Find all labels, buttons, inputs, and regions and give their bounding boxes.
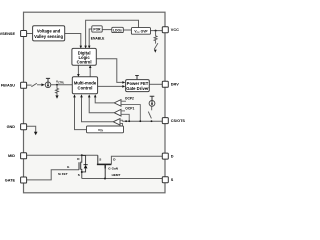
- svg-text:VCC: VCC: [171, 28, 179, 32]
- transistor Si FET: [81, 155, 82, 162]
- wire multi-mode to gate driver: [98, 85, 124, 87]
- VTH reference box: [87, 126, 124, 133]
- arrow into multi-mode top: [77, 74, 80, 77]
- wire POR to LDOs: [102, 29, 112, 31]
- wire VSENSE to Voltage and Valley sensing: [27, 33, 33, 35]
- pin VSENSE: [21, 31, 27, 37]
- current source circle on FB node: [45, 82, 51, 88]
- multi-mode bottom bus line 4 from OCP2: [95, 95, 114, 103]
- arrow into gate driver upper: [122, 81, 125, 84]
- box Voltage and Valley sensing: [33, 26, 65, 41]
- pin GATE: [21, 177, 27, 183]
- svg-text:OCP2: OCP2: [125, 97, 134, 101]
- ground arrow below VCTRL resistor: [55, 95, 58, 98]
- wire LDOs to Vcc OVP: [123, 29, 131, 31]
- supply tick above CS current source: [150, 96, 155, 100]
- svg-text:GND: GND: [7, 125, 16, 129]
- pin CS/OTS: [162, 118, 168, 124]
- wire POR to digital logic (ENABLE): [89, 29, 92, 47]
- GND pin wire with ground arrow: [27, 126, 36, 132]
- body diode of Si FET: [82, 156, 86, 165]
- svg-text:D: D: [171, 155, 174, 159]
- box Vcc OVP: [131, 28, 150, 35]
- pin S: [162, 177, 168, 183]
- wire Vcc OVP fault to digital logic: [86, 20, 139, 47]
- svg-text:LDOs: LDOs: [113, 28, 122, 32]
- pin D: [162, 153, 168, 159]
- FB/ASU pin wire: [27, 84, 32, 86]
- pin MID: [21, 153, 27, 159]
- svg-text:OCP1: OCP1: [125, 106, 134, 110]
- supply tick above FB current source: [46, 78, 50, 82]
- svg-text:S: S: [99, 157, 101, 161]
- node cascode gate junction: [104, 178, 106, 180]
- current source circle CS: [149, 101, 155, 107]
- switch blade on VCC bleed branch: [154, 43, 158, 49]
- wire VTH to ZCD lower input: [120, 123, 123, 126]
- svg-text:Control: Control: [78, 86, 93, 91]
- wire gate driver to DRV pin: [149, 83, 162, 85]
- arrow into digital logic bottom: [89, 65, 92, 68]
- svg-text:GATE: GATE: [5, 178, 16, 182]
- arrow into digital logic top 3: [88, 46, 91, 49]
- svg-text:ENABLE: ENABLE: [91, 37, 105, 41]
- multi-mode bottom bus line 2 from ZCD: [82, 95, 113, 121]
- svg-text:DRV: DRV: [171, 83, 179, 87]
- svg-text:S: S: [171, 178, 174, 182]
- resistor on VCC bleed branch: [154, 31, 157, 44]
- svg-text:Control: Control: [77, 59, 92, 64]
- arrow right on FB wire: [41, 83, 44, 86]
- box Digital Logic Control: [72, 48, 96, 65]
- arrow into gate driver lower: [122, 85, 125, 88]
- box Multi-mode Control: [72, 77, 97, 94]
- multi-mode bottom bus line 3 from OCP1: [89, 95, 114, 112]
- box POR: [92, 26, 102, 32]
- svg-text:VCC OVP: VCC OVP: [134, 29, 148, 34]
- svg-text:MID: MID: [8, 154, 15, 158]
- arrow into digital logic top 2: [84, 46, 87, 49]
- arrow into digital logic top 1: [80, 46, 83, 49]
- wire VCTRL to multi-mode: [51, 84, 73, 86]
- IC chip outline: [24, 12, 166, 193]
- node MID / Si drain junction: [81, 154, 83, 156]
- multi-mode bottom bus line 1 to VTH: [75, 95, 87, 129]
- svg-text:Gate Driver: Gate Driver: [126, 86, 149, 91]
- source rail wire to S pin: [82, 178, 163, 180]
- wire digital logic to multi-mode (down): [77, 65, 79, 75]
- svg-text:HEMT: HEMT: [112, 173, 121, 177]
- switch blade CS branch: [151, 106, 153, 110]
- wire valley sensing output to digital logic: [65, 34, 81, 48]
- wire digital logic to gate driver: [96, 59, 124, 83]
- svg-text:CS/OTS: CS/OTS: [171, 119, 186, 123]
- comparator ZCD: [113, 119, 120, 125]
- svg-text:Valley sensing: Valley sensing: [34, 34, 63, 39]
- wire ZCD upper input to CS line: [120, 120, 122, 121]
- GATE pin wire to Si FET gate: [27, 170, 79, 180]
- comparator OCP2: [114, 100, 121, 107]
- wire Vcc OVP to VCC pin: [151, 30, 163, 32]
- box LDOs: [112, 27, 124, 32]
- svg-text:GaN: GaN: [112, 167, 119, 171]
- pin FB/ASU: [21, 82, 27, 88]
- node CS junction dots: [125, 120, 127, 122]
- pin VCC: [162, 27, 168, 33]
- svg-text:S: S: [78, 173, 80, 177]
- svg-text:VSENSE: VSENSE: [0, 32, 15, 36]
- svg-text:FB/ASU: FB/ASU: [1, 84, 15, 88]
- svg-text:POR: POR: [93, 27, 101, 31]
- svg-text:Si FET: Si FET: [58, 172, 68, 176]
- pin GND: [21, 124, 27, 130]
- wire multi-mode to digital logic (up): [89, 66, 91, 76]
- resistor VCTRL to ground: [56, 85, 59, 96]
- CS/OTS sense line: [122, 120, 162, 122]
- node VCTRL: [56, 84, 58, 86]
- supply tick above gate driver: [135, 76, 139, 80]
- arrow down VCC bleed: [154, 50, 157, 53]
- MID pin wire: [27, 154, 98, 156]
- pin DRV: [162, 81, 168, 87]
- comparator OCP1: [114, 109, 121, 116]
- transistor GaN HEMT: [97, 163, 112, 165]
- node VCC junction: [155, 30, 157, 32]
- switch blade FB input: [31, 83, 36, 87]
- box Power FET Gate Driver: [126, 80, 150, 92]
